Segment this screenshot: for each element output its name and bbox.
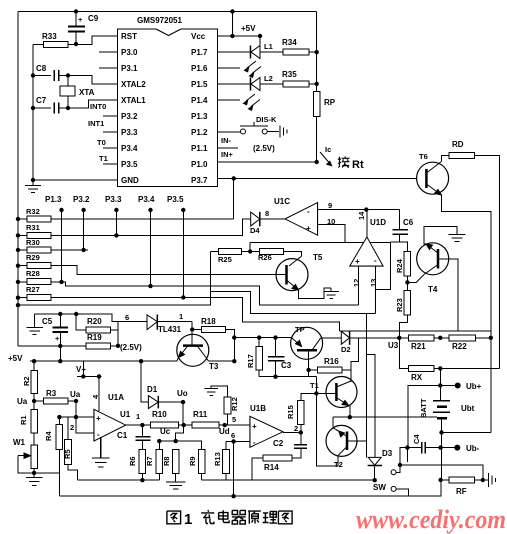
svg-text:R33: R33: [42, 32, 57, 41]
wire T5 emitter to ground: [299, 288, 332, 299]
resistor R33: [44, 42, 69, 48]
node C4 left: [405, 445, 409, 449]
wire T3 emitter to +5V rail: [30, 360, 177, 362]
wire 385 jog down to C4: [408, 386, 440, 448]
node P1.3 column top: [59, 208, 63, 212]
wire T4 base right down: [438, 259, 458, 331]
capacitor C8: [33, 70, 68, 81]
wire U3 down to RX: [399, 338, 408, 369]
node Ub- junction: [438, 445, 442, 449]
capacitor C3: [268, 338, 284, 377]
potentiometer W1: [31, 445, 38, 469]
node Vcc: [230, 34, 234, 38]
wire P3.7 long line to T6: [218, 177, 417, 179]
potentiometer RP: [313, 92, 320, 117]
wire R32 row: [18, 218, 234, 220]
svg-text:TP: TP: [295, 325, 305, 334]
wire U1A output line: [126, 424, 151, 426]
svg-text:T1: T1: [99, 154, 108, 163]
svg-text:-: -: [97, 430, 100, 439]
svg-text:R13: R13: [213, 452, 222, 466]
transistor T3: [177, 332, 209, 367]
svg-text:W1: W1: [13, 438, 26, 447]
node T1 base: [314, 391, 318, 395]
node R31 P3.3: [114, 233, 118, 237]
resistor R13: [225, 441, 227, 449]
wire R31 row to D4: [18, 219, 251, 236]
node R7 top: [157, 439, 161, 443]
svg-text:U1B: U1B: [250, 404, 266, 413]
svg-text:P1.5: P1.5: [191, 80, 208, 89]
svg-text:P3.4: P3.4: [121, 144, 138, 153]
svg-text:R3: R3: [46, 389, 57, 398]
wire left rail 306 line: [18, 252, 210, 306]
svg-text:R8: R8: [162, 456, 171, 466]
wire GND pin: [33, 179, 118, 181]
resistor R23: [404, 291, 411, 315]
svg-text:www.cediy.com: www.cediy.com: [356, 505, 506, 534]
wire R24 bottom: [406, 276, 408, 291]
wire 465 line to RF right: [400, 465, 483, 480]
wire RD right down right rail: [475, 156, 500, 369]
svg-text:INT0: INT0: [90, 102, 106, 111]
TL431 U2: [147, 315, 192, 330]
svg-text:C7: C7: [36, 96, 47, 105]
svg-text:XTAL1: XTAL1: [121, 96, 146, 105]
ground R12: [205, 389, 218, 396]
svg-text:D4: D4: [250, 226, 260, 235]
node C1 top: [140, 423, 144, 427]
wire R19 2.5V line: [18, 345, 86, 347]
svg-text:P3.2: P3.2: [121, 112, 138, 121]
svg-text:L1: L1: [264, 42, 273, 51]
svg-text:T1: T1: [310, 381, 319, 390]
wire R35 to RP column: [309, 83, 317, 85]
wire R30 row to R25: [18, 249, 88, 251]
node R27 left: [16, 296, 20, 300]
capacitor C1: [135, 425, 150, 449]
svg-text:R34: R34: [282, 38, 297, 47]
svg-text:14: 14: [357, 211, 366, 220]
svg-text:R20: R20: [87, 317, 102, 326]
crystal XTA: [60, 76, 75, 109]
node GND: [31, 178, 35, 182]
svg-text:P1.7: P1.7: [191, 48, 208, 57]
svg-text:C4: C4: [412, 434, 421, 444]
svg-text:R2: R2: [22, 376, 31, 386]
node bus2 join: [231, 494, 235, 498]
resistor R10: [151, 422, 179, 428]
node labels P1.3 P3.2 P3.3 P3.4 P3.5: [45, 195, 184, 204]
svg-text:R10: R10: [152, 410, 167, 419]
svg-text:INT1: INT1: [88, 119, 104, 128]
node Ic: [315, 160, 319, 164]
svg-text:Ic: Ic: [325, 145, 331, 154]
node R32 left: [16, 217, 20, 221]
wire T4 collector to R24 R23 node: [416, 275, 424, 283]
wire U1B minus line: [226, 440, 250, 442]
node TP base: [306, 368, 310, 372]
svg-text:P1.3: P1.3: [45, 195, 62, 204]
svg-text:R22: R22: [452, 342, 467, 351]
resistor R34: [283, 49, 309, 55]
svg-text:Vcc: Vcc: [191, 32, 206, 41]
resistor R22: [449, 335, 476, 341]
resistor R8: [172, 449, 179, 473]
svg-text:P1.3: P1.3: [191, 112, 208, 121]
node plus line crossing: [74, 415, 78, 419]
svg-text:+: +: [355, 257, 360, 266]
svg-text:13: 13: [369, 279, 378, 287]
svg-text:Ub-: Ub-: [466, 444, 480, 453]
ground DIS-K (right-facing): [280, 126, 287, 138]
node pin6: [231, 439, 235, 443]
diode D2: [321, 331, 400, 345]
svg-text:XTAL2: XTAL2: [121, 80, 146, 89]
svg-text:6: 6: [125, 313, 129, 322]
wire C5 column to rail: [59, 346, 61, 361]
node R4 plus line: [57, 415, 61, 419]
svg-text:Rt: Rt: [352, 159, 364, 171]
transistor T4: [417, 243, 449, 275]
node RX right battery column: [438, 366, 442, 370]
wire R14 left to bus1: [252, 458, 263, 480]
ground IC: [25, 180, 41, 193]
resistor R17: [258, 338, 260, 347]
wire U1D pin12: [357, 266, 359, 305]
svg-text:D3: D3: [382, 449, 393, 458]
svg-text:5: 5: [232, 415, 236, 424]
wire R5 bottom to bus1 riser: [68, 465, 77, 481]
node P3.2 column top: [81, 208, 85, 212]
wire R29 row jog to T5 base: [18, 266, 287, 275]
svg-text:D1: D1: [147, 385, 158, 394]
svg-text:IN+: IN+: [221, 150, 234, 159]
op-amp U1A: [94, 409, 126, 441]
IC side labels INT0 INT1 T0 T1 IN- IN+: [88, 102, 234, 163]
capacitor C6: [392, 210, 408, 242]
wire XTAL2: [68, 76, 118, 85]
node C8 left: [31, 73, 35, 77]
svg-text:U1A: U1A: [108, 393, 124, 402]
resistor R25: [210, 251, 218, 253]
wire P3.3 column: [115, 210, 117, 235]
node P3.3 column top: [114, 208, 118, 212]
svg-text:L2: L2: [264, 74, 273, 83]
wire U1C pin9 line: [318, 209, 400, 211]
svg-text:R17: R17: [246, 354, 255, 368]
svg-text:T4: T4: [428, 285, 438, 294]
svg-text:P3.5: P3.5: [121, 160, 138, 169]
svg-text:R29: R29: [26, 253, 40, 262]
wire P3.4 column: [150, 210, 152, 286]
svg-text:R19: R19: [87, 333, 102, 342]
wire T6 emitter rail: [441, 195, 490, 433]
resistor R19: [86, 343, 110, 349]
node R20 riser top: [74, 312, 78, 316]
svg-text:P3.5: P3.5: [167, 195, 184, 204]
resistor R1: [31, 409, 38, 433]
battery BATT: [433, 401, 450, 433]
svg-text:2: 2: [294, 424, 298, 433]
diode D3: [368, 457, 382, 480]
ground U1A: [92, 437, 110, 467]
wire P1.3 column: [61, 210, 63, 282]
node D1 column top: [139, 359, 143, 363]
wire R12 top to ground: [211, 386, 228, 397]
resistor R5: [67, 417, 69, 440]
node U3: [397, 336, 401, 340]
node R21 R22: [438, 336, 442, 340]
wire R27 row staircase: [18, 297, 340, 331]
wire bus2: [59, 480, 441, 496]
svg-text:R6: R6: [128, 456, 137, 466]
node +5V top: [230, 9, 234, 13]
svg-text:C5: C5: [42, 317, 53, 326]
node R29 left: [16, 264, 20, 268]
resistor R32: [27, 216, 51, 222]
svg-text:BATT: BATT: [419, 398, 428, 418]
wire U1B output: [283, 432, 301, 434]
resistor R29: [27, 263, 51, 269]
svg-text:GND: GND: [121, 176, 139, 185]
svg-text:6: 6: [231, 431, 235, 440]
resistor R12: [227, 414, 229, 425]
svg-text:(2.5V): (2.5V): [253, 144, 275, 153]
resistor R20: [76, 314, 86, 330]
ground RF (right-facing): [489, 473, 496, 487]
resistor R35: [283, 81, 309, 87]
wire C6 bottom to R24 top: [391, 242, 408, 252]
resistor R24: [404, 252, 411, 276]
wire 314 line: [35, 314, 147, 322]
svg-text:Ud: Ud: [219, 427, 230, 436]
svg-text:R7: R7: [145, 456, 154, 466]
wire battery column top: [439, 368, 441, 400]
wire T2 collector to T1 base column: [317, 393, 338, 466]
node R6 bottom: [140, 478, 144, 482]
svg-text:C2: C2: [273, 439, 284, 448]
LED L1: [218, 46, 284, 59]
ground T5: [324, 288, 340, 299]
wire P1.1 stub: [218, 147, 239, 149]
svg-text:RF: RF: [456, 487, 467, 496]
svg-text:R35: R35: [282, 70, 297, 79]
ground R8: [166, 482, 186, 489]
node P3.7: [232, 176, 236, 180]
node R18 337: [232, 335, 236, 339]
capacitor C2: [292, 433, 307, 459]
transistor T1: [326, 377, 357, 408]
svg-text:U3: U3: [388, 341, 399, 350]
node R28 left: [16, 280, 20, 284]
ground W1: [26, 478, 43, 486]
svg-text:P3.3: P3.3: [121, 128, 138, 137]
wire power rails top and left: [18, 12, 317, 347]
resistor R18: [192, 329, 202, 331]
resistor R15: [298, 401, 305, 425]
wire bus1 right segment: [202, 479, 375, 481]
svg-text:Ubt: Ubt: [461, 404, 475, 413]
svg-text:1: 1: [136, 412, 140, 421]
wire left rail: [17, 12, 19, 347]
node P3.5 column top: [181, 208, 185, 212]
svg-text:R32: R32: [26, 207, 40, 216]
node C7 left: [31, 106, 35, 110]
wire R20 right riser: [110, 322, 118, 346]
svg-text:R21: R21: [411, 342, 426, 351]
IC pin labels right: [191, 32, 208, 185]
resistor R3: [34, 400, 44, 402]
svg-text:+: +: [306, 224, 311, 233]
svg-text:P3.0: P3.0: [121, 48, 138, 57]
node R15 bottom: [299, 430, 303, 434]
wire R34 to RP column: [309, 51, 317, 53]
svg-text:D2: D2: [341, 345, 351, 354]
svg-text:C9: C9: [88, 14, 99, 23]
svg-text:+: +: [96, 414, 101, 423]
wire R25 to R26: [242, 251, 260, 253]
transistor T5: [276, 259, 308, 291]
wire battery column to Ub- line: [441, 433, 443, 481]
svg-text:Ua: Ua: [70, 390, 81, 399]
svg-text:1: 1: [179, 312, 183, 321]
wire D2 line drop to T1 collector: [351, 338, 359, 370]
svg-text:P1.2: P1.2: [191, 128, 208, 137]
transistor T6: [417, 162, 449, 196]
wire R22 right to T6 rail: [475, 337, 490, 339]
svg-text:U1D: U1D: [370, 218, 386, 227]
wire R7 R8 R9 top line: [159, 441, 201, 449]
svg-text:R30: R30: [26, 238, 40, 247]
node T3 base R18: [190, 327, 194, 331]
wire Uc drop to R8 top: [176, 425, 184, 441]
svg-text:+: +: [252, 422, 257, 431]
svg-text:R28: R28: [26, 269, 40, 278]
caption figure title: [167, 511, 181, 524]
svg-text:U1C: U1C: [274, 197, 290, 206]
ground C5: [27, 314, 44, 335]
node Ud: [223, 423, 227, 427]
wire C4dot down to SW lower: [406, 448, 408, 462]
svg-text:GMS972051: GMS972051: [137, 16, 182, 25]
wire R33 to rail33 and RST: [33, 36, 118, 180]
resistor R27: [27, 295, 51, 301]
LED L2 arrows: [218, 94, 261, 111]
IC left pin stubs: [99, 52, 118, 164]
node R28 P1.3: [59, 280, 63, 284]
resistor R11: [192, 422, 219, 428]
node Ub- terminal: [441, 447, 458, 449]
node C9 bottom / RST: [74, 42, 78, 46]
wire RX right to RD rail: [434, 367, 500, 369]
svg-text:T5: T5: [313, 253, 323, 262]
svg-text:R25: R25: [218, 255, 232, 264]
svg-text:C3: C3: [281, 361, 292, 370]
wire T4 emitter to ground: [424, 227, 457, 244]
wire P1.0 Ic line: [218, 161, 317, 163]
resistor RX: [409, 365, 434, 371]
node Ua left: [32, 399, 36, 403]
node +5V right: [258, 34, 262, 38]
svg-text:P3.7: P3.7: [191, 176, 208, 185]
wire R21 to R22: [434, 337, 449, 339]
wire U1D output pin14: [366, 210, 368, 237]
node R34 right: [315, 50, 319, 54]
svg-text:Uc: Uc: [160, 427, 171, 436]
svg-text:C8: C8: [36, 64, 47, 73]
node R35 right: [315, 82, 319, 86]
svg-text:P3.1: P3.1: [121, 64, 138, 73]
switch SW: [391, 465, 409, 496]
svg-text:T6: T6: [419, 152, 428, 161]
wire 376 line TP base T1 riser: [259, 376, 316, 378]
resistor R31: [27, 232, 51, 238]
capacitor C5: [53, 314, 68, 346]
svg-text:U1: U1: [120, 410, 131, 419]
wire T3 collector: [206, 358, 209, 362]
node C9 top: [74, 9, 78, 13]
resistor R14: [263, 455, 292, 461]
wire RP column: [316, 12, 318, 92]
wire Uo down to R10 R11: [182, 402, 184, 425]
node T3 collector 234: [232, 359, 236, 363]
node D3 bottom bus1: [373, 478, 377, 482]
node Ua right: [74, 399, 78, 403]
capacitor C9: [68, 12, 85, 45]
svg-text:Uo: Uo: [177, 389, 188, 398]
wire top rail: [18, 11, 317, 13]
push button DIS-K: [218, 122, 280, 134]
svg-text:-: -: [307, 207, 310, 216]
svg-text:RX: RX: [411, 373, 423, 382]
svg-text:2: 2: [70, 423, 74, 432]
wire P3.2 column: [83, 210, 85, 250]
node T1 emitter: [348, 415, 352, 419]
resistor RF: [441, 479, 450, 481]
node Uc: [182, 423, 186, 427]
svg-text:-: -: [374, 256, 377, 265]
node R8 top: [174, 439, 178, 443]
svg-text:T3: T3: [209, 362, 219, 371]
svg-text:R11: R11: [193, 410, 208, 419]
node RF right: [481, 478, 485, 482]
op-amp U1D (points up): [350, 237, 383, 266]
node C3 top: [273, 335, 277, 339]
LED L1 arrows: [218, 61, 262, 78]
svg-text:R14: R14: [264, 463, 279, 472]
node C5 top: [58, 312, 62, 316]
wire P3.7 down to R32 row: [233, 178, 235, 219]
node +5V R2: [32, 359, 36, 363]
wire TL431 down to T3 base: [191, 322, 193, 330]
svg-text:RP: RP: [324, 98, 336, 107]
svg-text:R9: R9: [188, 456, 197, 466]
svg-text:P3.3: P3.3: [105, 195, 122, 204]
transistor TP: [291, 327, 323, 359]
svg-text:XTA: XTA: [79, 88, 95, 97]
node SW upper riser: [398, 463, 402, 467]
svg-text:+5V: +5V: [241, 24, 256, 33]
svg-text:9: 9: [328, 201, 332, 210]
node Uo: [181, 400, 185, 404]
svg-text:R12: R12: [230, 397, 239, 411]
wire XTAL1: [68, 100, 118, 108]
resistor R4: [58, 417, 60, 424]
svg-text:P1.1: P1.1: [191, 144, 208, 153]
node C8 right: [66, 73, 70, 77]
wire R28 row to U1D pin12: [18, 282, 358, 305]
